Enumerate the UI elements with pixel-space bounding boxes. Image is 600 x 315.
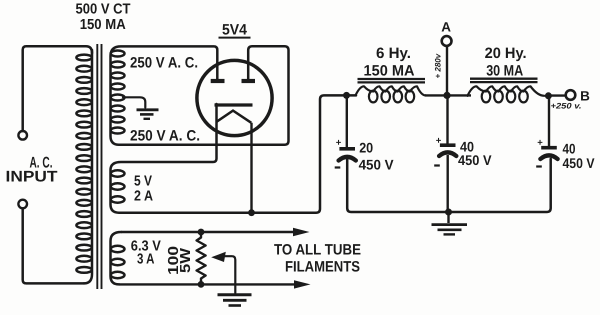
transformer T1 core xyxy=(96,44,98,289)
terminal B xyxy=(566,90,576,100)
node: ground bus junction xyxy=(445,209,452,216)
wire: cap C1 bottom lead + ground bus xyxy=(347,159,551,212)
svg-text:30 MA: 30 MA xyxy=(486,62,523,79)
capacitor C1 20uF 450V xyxy=(339,147,355,151)
wiper arrow of R1 xyxy=(211,252,226,262)
choke L2 core xyxy=(470,78,538,80)
svg-text:450 V: 450 V xyxy=(458,152,492,168)
svg-text:450 V: 450 V xyxy=(359,157,395,173)
ground (center tap) xyxy=(137,108,159,111)
svg-text:5V4: 5V4 xyxy=(222,22,248,39)
tube V1 left plate xyxy=(211,79,225,83)
tube V1 envelope xyxy=(197,60,272,135)
capacitor C2 40uF 450V xyxy=(440,143,456,147)
wire: filament right leg down to 5V bottom node xyxy=(250,123,252,213)
tube V1 cathode bar xyxy=(215,103,253,106)
terminal: A.C. input upper xyxy=(18,131,27,140)
svg-text:3 A: 3 A xyxy=(137,252,155,268)
choke L1 coil 6Hy xyxy=(356,86,426,95)
wire: cap C1 top lead xyxy=(346,95,348,147)
6.3V filament winding xyxy=(111,232,122,284)
wire: node A to terminal A xyxy=(446,47,448,96)
svg-text:5W: 5W xyxy=(178,248,194,273)
arrowhead bottom filament xyxy=(294,280,311,288)
svg-text:250 V A. C.: 250 V A. C. xyxy=(130,128,200,145)
svg-text:FILAMENTS: FILAMENTS xyxy=(285,259,360,276)
node A junction xyxy=(443,92,450,99)
wire: HV center tap xyxy=(123,97,145,107)
svg-text:+250 v.: +250 v. xyxy=(551,102,582,111)
HV secondary winding + wires to rectifier plates xyxy=(111,46,289,145)
svg-text:+: + xyxy=(336,138,342,149)
wire: AC input bottom to primary xyxy=(23,209,84,284)
node B junction xyxy=(545,92,552,99)
terminal: A.C. input lower xyxy=(18,200,27,209)
svg-text:TO ALL TUBE: TO ALL TUBE xyxy=(274,242,361,259)
wire: cap C3 top lead xyxy=(548,96,550,147)
tube V1 filament xyxy=(217,111,252,123)
svg-text:150 MA: 150 MA xyxy=(364,62,415,79)
svg-text:+: + xyxy=(436,136,442,147)
node: resistor bottom junction xyxy=(198,281,205,288)
svg-text:+: + xyxy=(537,138,543,149)
wire: filter rail between chokes xyxy=(425,94,471,96)
primary winding P1 xyxy=(84,50,92,283)
svg-text:6 Hy.: 6 Hy. xyxy=(376,45,411,62)
svg-text:+ 280v: + 280v xyxy=(434,53,443,78)
svg-text:INPUT: INPUT xyxy=(6,168,59,185)
svg-text:500 V CT: 500 V CT xyxy=(76,2,131,18)
node: filter input junction xyxy=(343,92,350,99)
wire: B+ riser to filter input xyxy=(252,95,357,212)
terminal A xyxy=(442,36,452,46)
node: B+ takeoff junction xyxy=(248,209,255,216)
wire: cap C2 top lead xyxy=(446,95,448,144)
svg-text:20 Hy.: 20 Hy. xyxy=(485,45,527,62)
resistor R1 100 ohm 5W potentiometer xyxy=(197,232,206,284)
choke L1 core xyxy=(358,78,426,80)
ground (wiper) xyxy=(218,293,252,296)
wire: node B to terminal B xyxy=(548,94,565,96)
wire: 6.3V top to filaments xyxy=(121,231,295,233)
svg-text:B: B xyxy=(580,88,590,103)
svg-text:5 V: 5 V xyxy=(134,174,152,190)
svg-text:2 A: 2 A xyxy=(134,189,153,205)
wire: 6.3V bottom to filaments xyxy=(119,283,296,285)
svg-text:150 MA: 150 MA xyxy=(80,17,126,33)
svg-text:20: 20 xyxy=(359,140,373,156)
svg-text:450 V: 450 V xyxy=(563,155,596,171)
wire: AC input top to primary xyxy=(23,46,92,131)
capacitor C3 40uF 450V xyxy=(541,146,557,150)
ground (filter bus) xyxy=(447,212,449,223)
5V filament winding xyxy=(111,104,252,213)
choke L2 coil 20Hy xyxy=(468,86,545,96)
tube V1 right plate xyxy=(242,79,256,83)
svg-text:A: A xyxy=(441,20,451,35)
wire: cap C2 bottom lead xyxy=(447,155,449,212)
node: resistor top junction xyxy=(198,229,205,236)
wire: wiper to ground xyxy=(222,256,235,293)
arrowhead top filament xyxy=(293,228,310,236)
svg-text:250 V A. C.: 250 V A. C. xyxy=(130,55,198,72)
